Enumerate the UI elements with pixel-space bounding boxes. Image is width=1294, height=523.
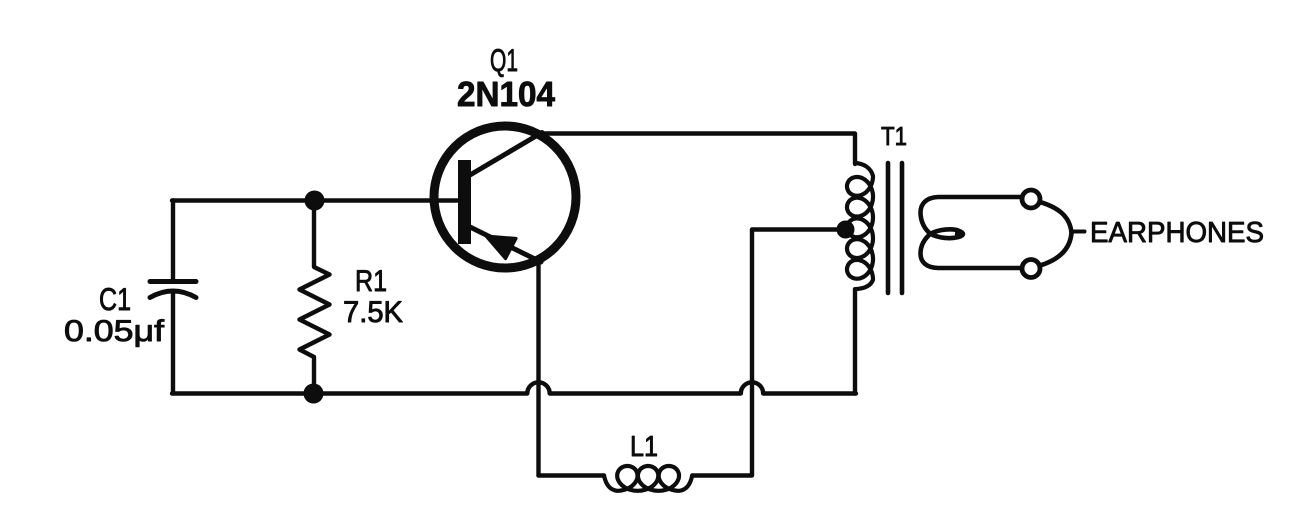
- wire top node C1-R1-base: [172, 198, 457, 202]
- svg-text:C1: C1: [99, 281, 131, 317]
- earphone terminal top: [1022, 190, 1040, 208]
- capacitor C1: [150, 201, 196, 394]
- wire collector to T1 primary top: [540, 134, 855, 165]
- inductor L1: [604, 466, 692, 491]
- transistor Q1 body: [434, 126, 576, 268]
- svg-text:R1: R1: [355, 265, 387, 298]
- svg-text:Q1: Q1: [490, 42, 518, 78]
- svg-text:L1: L1: [630, 431, 658, 463]
- transformer T1 core line left: [886, 163, 891, 293]
- svg-text:2N104: 2N104: [457, 75, 556, 114]
- earphone cord arc bottom: [1040, 233, 1072, 266]
- transistor Q1 emitter stroke: [470, 227, 541, 262]
- transistor Q1 base bar: [458, 160, 471, 244]
- transistor Q1 collector stroke: [470, 133, 542, 176]
- transformer T1 secondary winding with loop: [921, 197, 1023, 268]
- wire L1 right lead up to tap: [692, 230, 752, 476]
- transformer T1 primary winding: [847, 163, 873, 289]
- junction node top of R1: [305, 191, 325, 211]
- secondary loop tip blob: [955, 230, 963, 238]
- svg-text:0.05μf: 0.05μf: [64, 315, 165, 348]
- svg-text:7.5K: 7.5K: [343, 296, 403, 329]
- wire T1 primary bottom lead: [853, 289, 857, 393]
- earphone lead dash: [1073, 230, 1085, 234]
- transformer T1 core line right: [900, 163, 905, 293]
- svg-text:T1: T1: [881, 121, 907, 151]
- svg-text:EARPHONES: EARPHONES: [1090, 217, 1264, 249]
- earphone terminal bottom: [1022, 260, 1040, 278]
- wire L1 left lead: [539, 473, 605, 477]
- wire emitter down to L1: [536, 261, 540, 476]
- transistor Q1 emitter arrow: [486, 236, 516, 259]
- wire tap to T1 primary: [752, 227, 845, 231]
- junction node T1 primary tap: [837, 221, 855, 239]
- resistor R1: [300, 201, 330, 394]
- earphone cord arc top: [1040, 202, 1072, 233]
- wire bottom bus with crossover hops: [172, 382, 856, 393]
- junction node bottom of R1: [304, 384, 324, 404]
